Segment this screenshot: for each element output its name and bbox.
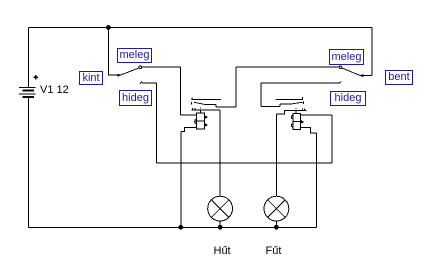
wire kint switch riser (107, 28, 109, 76)
relay K1 contact B tick (190, 102, 192, 104)
battery plus sign (33, 75, 37, 79)
relay K1 coil box (196, 113, 204, 129)
relay K2 contact B stair (276, 110, 284, 114)
lamp label Hut (214, 245, 231, 257)
relay K2 pivot line (280, 103, 290, 105)
label box meleg left (117, 48, 152, 63)
wire top rail (28, 27, 372, 29)
relay K1 link dash (200, 107, 202, 108)
lamp label Fut (266, 245, 282, 257)
contact tick hideg right (339, 82, 341, 84)
relay K2 contact A line (276, 99, 304, 101)
switch bent pivot arrow (359, 74, 363, 77)
relay K1 contact ticks pair (193, 108, 195, 110)
switch bent lever (342, 68, 361, 76)
battery V1 plate long top (19, 87, 36, 89)
relay K2 contact A tick (302, 97, 304, 99)
wire mid horizontal net (156, 162, 331, 164)
label box bent (385, 70, 413, 85)
wire relay K1 coil bottom stair (181, 128, 197, 228)
lamp L2 circle (264, 196, 289, 221)
node junction top (106, 25, 111, 30)
wire bottom rail (28, 226, 316, 228)
battery V1 value label (40, 84, 69, 96)
relay K1 contact A tick (191, 97, 193, 100)
node lamp L1 bottom (218, 225, 223, 230)
switch kint pivot arrow (118, 74, 122, 77)
wire relay K2 coil bottom stair (300, 128, 316, 228)
label box hideg left (119, 90, 152, 106)
lamp L2 cross (268, 200, 286, 218)
wire relay K1 pole riser to meleg right (235, 67, 237, 107)
wire meleg right (236, 66, 340, 68)
relay K2 lever (290, 102, 302, 104)
wire left rail lower (27, 98, 29, 227)
relay K1 contact A line (191, 99, 221, 101)
relay K1 pivot line (205, 104, 216, 106)
node relay K1 bottom rail (178, 225, 183, 230)
relay K2 pole step (279, 104, 281, 107)
lamp L1 cross (211, 200, 229, 218)
wire meleg left riser down (180, 67, 182, 115)
relay K2 coil left mark lower (291, 124, 292, 127)
switch kint lever (121, 68, 140, 75)
battery V1 plate short thick bottom (23, 96, 35, 98)
relay K1 coil top pin (200, 110, 202, 113)
label box kint (79, 71, 103, 85)
lamp L1 circle (208, 196, 233, 221)
relay K1 coil arrow upper (205, 115, 208, 118)
relay K1 coil left mark upper (195, 120, 197, 124)
wire lamp L2 bottom stub (275, 221, 277, 227)
switch kint tip hook (139, 66, 142, 69)
switch bent pole stub (361, 75, 372, 77)
relay K2 coil arrow upper (301, 120, 304, 124)
relay K1 coil arrow lower (205, 123, 208, 126)
relay K1 contact B net line (191, 109, 220, 111)
relay K2 coil top pin (295, 110, 297, 113)
relay K1 coil divider (196, 120, 204, 122)
battery V1 plate long (19, 93, 36, 95)
wire relay K2 pole riser (260, 83, 262, 107)
battery V1 plate short thick (23, 90, 35, 92)
switch bent tip hook (339, 66, 342, 69)
wire hideg right (261, 82, 339, 84)
switch kint pole stub (108, 74, 119, 76)
relay K2 contact ticks pair (302, 109, 304, 111)
wire lamp2 drop (275, 114, 277, 196)
wire meleg left (142, 66, 181, 68)
relay K2 coil box (293, 114, 300, 130)
wire lamp1 drop (219, 110, 221, 196)
relay K1 lever (194, 102, 205, 104)
relay K1 pole wire (216, 106, 236, 108)
label box meleg right (329, 49, 364, 65)
relay K2 pole wire (261, 106, 280, 108)
contact tick hideg left (140, 82, 142, 84)
wire lamp L1 bottom stub (219, 221, 221, 227)
wire to relay1 coil left (181, 114, 197, 116)
relay K2 coil divider (293, 121, 300, 123)
relay K2 coil left mark upper (291, 116, 292, 119)
label box hideg right (330, 91, 366, 106)
relay K1 pole step (215, 105, 217, 107)
relay K2 contact B tick (303, 102, 305, 105)
wire hideg left (142, 83, 156, 163)
wire relay K2 coil top to mid net (300, 115, 332, 163)
wire left rail upper (27, 28, 29, 88)
relay K2 contact B net line (285, 109, 307, 111)
wire bent switch riser (371, 28, 373, 76)
relay K2 link dash (295, 108, 297, 109)
node lamp L2 bottom (274, 225, 279, 230)
